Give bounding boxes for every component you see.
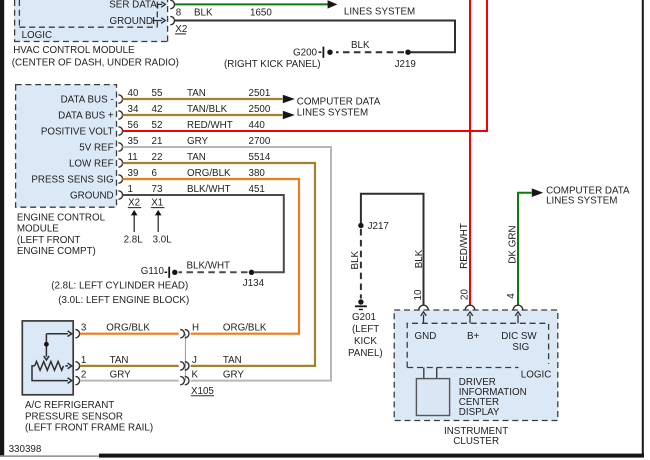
svg-text:TAN/BLK: TAN/BLK [187,104,228,115]
instrument cluster box [394,310,558,421]
DIC display connection lines [423,368,425,379]
wire TAN/BLK 2500 [122,114,282,116]
svg-text:380: 380 [249,168,266,179]
svg-text:(3.0L: LEFT ENGINE BLOCK): (3.0L: LEFT ENGINE BLOCK) [58,295,189,306]
arrow computer data lines (row2) [283,111,295,120]
svg-text:2501: 2501 [249,88,271,99]
variable resistor zigzag [35,362,64,371]
svg-text:1: 1 [81,355,86,366]
svg-text:BLK: BLK [350,250,361,269]
svg-text:TAN: TAN [223,355,242,366]
svg-text:73: 73 [152,184,163,195]
wire GRY sensor side [80,380,179,382]
svg-text:(RIGHT KICK PANEL): (RIGHT KICK PANEL) [224,59,321,70]
pin symbol SER DATA [158,2,166,9]
svg-text:J219: J219 [395,59,416,70]
connector X105 tie line [184,334,186,381]
arrow X1 3.0L [157,215,159,233]
arrow to LINES SYSTEM (top) [328,0,338,8]
pin arrow B+ [467,312,473,323]
wire BLK dashed to G200 [336,51,404,53]
svg-text:2700: 2700 [249,136,271,147]
ground G200 [327,50,332,55]
svg-text:52: 52 [152,120,163,131]
SEC-ECMWIRES [122,0,487,381]
svg-text:COMPUTER DATA: COMPUTER DATA [297,97,381,108]
svg-text:42: 42 [152,104,163,115]
wire BLK/WHT dashed to G110 [179,271,248,273]
svg-text:LINES SYSTEM: LINES SYSTEM [297,108,368,119]
ground G201 [358,299,363,304]
svg-text:56: 56 [128,120,139,131]
ground G110 [172,270,177,275]
wire RED/WHT vertical to cluster [469,0,471,305]
wire BLK dashed to G201 [360,229,362,299]
svg-text:3: 3 [81,323,87,334]
svg-text:POSITIVE VOLT: POSITIVE VOLT [41,126,114,137]
wire ORG/BLK 380 [122,179,299,334]
wire BLK/WHT 451 [122,195,283,272]
wiper arrow with junction dot [44,334,49,360]
svg-text:GROUND: GROUND [70,190,114,201]
SEC-ECMBOTTOM [17,198,172,257]
pin arrow DIC SW SIG [515,312,521,323]
sensor pin 3 arrow [46,331,71,337]
svg-text:(LEFT FRONT: (LEFT FRONT [17,235,81,246]
svg-text:1650: 1650 [250,7,272,18]
svg-text:PANEL): PANEL) [348,348,383,359]
svg-text:TAN: TAN [187,88,206,99]
svg-text:GRY: GRY [110,370,132,381]
splice J134 [249,270,254,275]
connector arc X2 pin 8 GROUND [170,16,174,24]
SEC-X105 [180,323,267,397]
svg-text:GND: GND [415,331,437,342]
SEC-G110 [51,261,264,306]
svg-text:RED/WHT: RED/WHT [187,120,233,131]
svg-text:ORG/BLK: ORG/BLK [223,323,267,334]
svg-text:6: 6 [152,168,158,179]
svg-text:(LEFT: (LEFT [352,324,379,335]
svg-text:ENGINE COMPT): ENGINE COMPT) [17,246,96,257]
svg-text:LOW REF: LOW REF [69,158,114,169]
A/C refrigerant pressure sensor box [22,321,73,395]
svg-text:J: J [192,355,197,366]
connector arcs ECM pins [118,95,122,199]
svg-text:SIG: SIG [512,342,529,353]
wire TAN 5514 [122,163,315,366]
svg-text:5514: 5514 [249,152,271,163]
wire DK GRN [518,193,532,306]
hvac module outer dashed border [14,0,168,42]
svg-text:BLK/WHT: BLK/WHT [187,184,231,195]
svg-text:(CENTER OF DASH, UNDER RADIO): (CENTER OF DASH, UNDER RADIO) [12,58,179,69]
svg-text:G201: G201 [352,312,376,323]
svg-text:G110: G110 [141,266,165,277]
wire TAN 2501 [122,98,282,100]
svg-text:3.0L: 3.0L [153,234,173,245]
svg-text:LINES SYSTEM: LINES SYSTEM [344,6,415,17]
svg-text:CLUSTER: CLUSTER [453,436,499,447]
svg-text:40: 40 [128,88,139,99]
svg-text:SER DATA: SER DATA [109,0,157,10]
svg-text:LOGIC: LOGIC [22,30,52,41]
SEC-TOPWIRES [175,0,455,70]
svg-text:35: 35 [128,136,139,147]
wire SER DATA green [175,3,328,5]
svg-text:PRESSURE SENSOR: PRESSURE SENSOR [25,411,123,422]
svg-text:J217: J217 [368,221,389,232]
svg-text:G200: G200 [293,48,318,59]
svg-text:DATA BUS +: DATA BUS + [58,110,114,121]
svg-text:2.8L: 2.8L [124,234,144,245]
connector X105 arcs row H [180,330,189,338]
arrow to COMPUTER DATA LINES SYSTEM (right) [532,188,543,197]
connector X105 arcs row K [180,376,189,384]
svg-text:BLK: BLK [351,40,370,51]
connector arcs cluster pins 10 20 4 [419,305,523,310]
svg-text:K: K [192,370,199,381]
svg-text:TAN: TAN [187,152,206,163]
svg-text:330398: 330398 [9,444,42,455]
sensor pin 1 arrow [65,363,71,369]
svg-text:DIC SW: DIC SW [501,331,537,342]
arrow X2 2.8L [133,215,135,233]
svg-text:8: 8 [176,7,182,18]
svg-text:GRY: GRY [187,136,209,147]
connector arc X2 pin SER DATA [170,0,174,8]
SEC-ECM [16,85,123,208]
svg-text:H: H [192,323,199,334]
svg-text:ENGINE CONTROL: ENGINE CONTROL [17,212,106,223]
SEC-HVAC [12,0,187,68]
svg-text:4: 4 [506,293,517,299]
svg-text:20: 20 [460,289,471,300]
svg-text:11: 11 [128,152,138,163]
svg-text:J134: J134 [243,278,265,289]
svg-text:22: 22 [152,152,163,163]
svg-text:DATA BUS -: DATA BUS - [61,94,114,105]
pin arrow GND [421,312,427,323]
svg-text:451: 451 [249,184,265,195]
svg-text:GROUND: GROUND [109,16,153,27]
svg-text:RED/WHT: RED/WHT [459,223,470,269]
svg-text:ORG/BLK: ORG/BLK [187,168,231,179]
DIC display box [416,379,449,416]
svg-text:2500: 2500 [249,104,271,115]
wire BLK pin10 to J217 [361,194,424,306]
svg-text:BLK/WHT: BLK/WHT [187,261,231,272]
svg-text:2: 2 [81,370,86,381]
svg-text:(2.8L: LEFT CYLINDER HEAD): (2.8L: LEFT CYLINDER HEAD) [51,280,188,291]
splice J217 [358,223,363,228]
svg-text:MODULE: MODULE [17,224,59,235]
pin symbol GROUND (hvac) [154,17,166,24]
svg-text:DISPLAY: DISPLAY [459,407,500,418]
svg-text:39: 39 [128,168,139,179]
svg-text:1: 1 [128,184,133,195]
svg-text:34: 34 [128,104,139,115]
arrow computer data lines (row1) [283,95,295,104]
svg-text:LINES SYSTEM: LINES SYSTEM [546,196,617,207]
SEC-SENSOR [22,321,178,434]
connector X105 arcs row J [180,362,189,370]
svg-text:GRY: GRY [223,370,245,381]
SEC-CLUSTER [348,185,630,447]
svg-text:ORG/BLK: ORG/BLK [106,323,150,334]
svg-text:5V REF: 5V REF [79,142,113,153]
connector arcs sensor pins 3 1 2 [75,330,79,385]
splice J219 [405,50,410,55]
svg-text:HVAC CONTROL MODULE: HVAC CONTROL MODULE [13,45,135,56]
svg-text:LOGIC: LOGIC [521,369,552,380]
cluster logic inner dashed box [407,323,548,367]
wire ORG/BLK sensor side [80,333,179,335]
svg-text:DK GRN: DK GRN [507,225,518,263]
svg-text:TAN: TAN [110,355,129,366]
hvac module U-HVAC box fill [14,0,168,42]
wire TAN sensor side [80,365,179,367]
svg-text:A/C REFRIGERANT: A/C REFRIGERANT [25,400,114,411]
sensor pin 2 arrow [32,366,72,384]
svg-text:BLK: BLK [414,249,425,268]
svg-text:10: 10 [413,289,424,300]
svg-text:21: 21 [152,136,163,147]
svg-text:55: 55 [152,88,163,99]
svg-text:KICK: KICK [354,336,377,347]
hvac logic inner dashed box [19,0,157,27]
svg-text:(LEFT FRONT FRAME RAIL): (LEFT FRONT FRAME RAIL) [25,423,153,434]
wire RED/WHT 440 [122,0,487,131]
wire GRY 2700 [122,147,331,381]
ECM module box [16,85,117,208]
svg-text:B+: B+ [467,331,480,342]
svg-text:BLK: BLK [194,7,213,18]
wire BLK 1650 from hvac ground [175,21,455,53]
svg-text:PRESS SENS SIG: PRESS SENS SIG [31,174,113,185]
svg-text:X105: X105 [191,386,214,397]
svg-text:440: 440 [249,120,266,131]
